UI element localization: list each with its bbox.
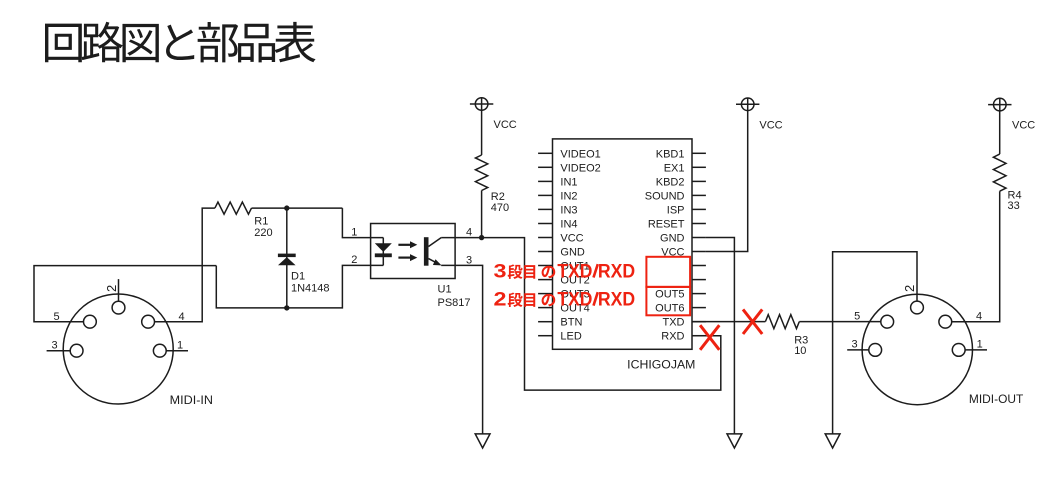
svg-text:MIDI-IN: MIDI-IN [170, 395, 213, 407]
svg-text:D1: D1 [291, 271, 305, 283]
svg-text:4: 4 [178, 311, 184, 323]
svg-text:RXD: RXD [598, 262, 635, 283]
svg-text:3: 3 [51, 340, 57, 352]
svg-text:2: 2 [351, 254, 357, 266]
svg-text:GND: GND [560, 247, 585, 259]
svg-text:U1: U1 [438, 284, 452, 296]
svg-text:VCC: VCC [560, 233, 583, 245]
svg-text:VCC: VCC [759, 119, 782, 131]
svg-text:EX1: EX1 [664, 162, 685, 174]
svg-text:RXD: RXD [661, 331, 684, 343]
svg-text:470: 470 [491, 202, 509, 214]
svg-text:TXD: TXD [557, 262, 592, 283]
svg-text:IN2: IN2 [560, 190, 577, 202]
svg-text:LED: LED [560, 331, 581, 343]
svg-text:OUT5: OUT5 [655, 289, 684, 301]
svg-text:KBD2: KBD2 [656, 176, 685, 188]
svg-text:RESET: RESET [648, 219, 685, 231]
svg-text:BTN: BTN [560, 317, 582, 329]
svg-text:1: 1 [977, 339, 983, 351]
svg-text:IN3: IN3 [560, 204, 577, 216]
svg-text:OUT6: OUT6 [655, 303, 684, 315]
svg-text:3: 3 [851, 339, 857, 351]
svg-text:220: 220 [254, 227, 272, 239]
svg-text:2: 2 [902, 285, 917, 292]
svg-text:3: 3 [466, 254, 472, 266]
svg-text:2: 2 [104, 285, 119, 292]
svg-text:TXD: TXD [663, 317, 685, 329]
svg-text:ICHIGOJAM: ICHIGOJAM [627, 359, 695, 371]
svg-text:ISP: ISP [667, 204, 685, 216]
svg-text:VCC: VCC [494, 119, 517, 131]
svg-text:KBD1: KBD1 [656, 148, 685, 160]
svg-text:2: 2 [494, 290, 507, 311]
svg-text:4: 4 [976, 311, 982, 323]
svg-text:5: 5 [54, 311, 60, 323]
svg-text:1: 1 [351, 226, 357, 238]
svg-text:IN1: IN1 [560, 176, 577, 188]
svg-text:MIDI-OUT: MIDI-OUT [969, 394, 1023, 406]
svg-text:4: 4 [466, 227, 472, 239]
svg-text:VIDEO1: VIDEO1 [560, 148, 600, 160]
svg-text:SOUND: SOUND [645, 190, 685, 202]
svg-text:1: 1 [177, 340, 183, 352]
svg-text:33: 33 [1008, 200, 1020, 212]
svg-text:3: 3 [494, 262, 507, 283]
svg-text:TXD: TXD [557, 290, 592, 311]
svg-text:PS817: PS817 [438, 297, 471, 309]
svg-text:RXD: RXD [598, 290, 635, 311]
svg-text:10: 10 [794, 345, 806, 357]
svg-text:GND: GND [660, 233, 685, 245]
svg-text:IN4: IN4 [560, 219, 577, 231]
svg-text:R1: R1 [254, 216, 268, 228]
svg-text:VCC: VCC [1012, 120, 1035, 132]
svg-text:1N4148: 1N4148 [291, 283, 330, 295]
svg-text:VIDEO2: VIDEO2 [560, 162, 600, 174]
svg-text:5: 5 [854, 311, 860, 323]
